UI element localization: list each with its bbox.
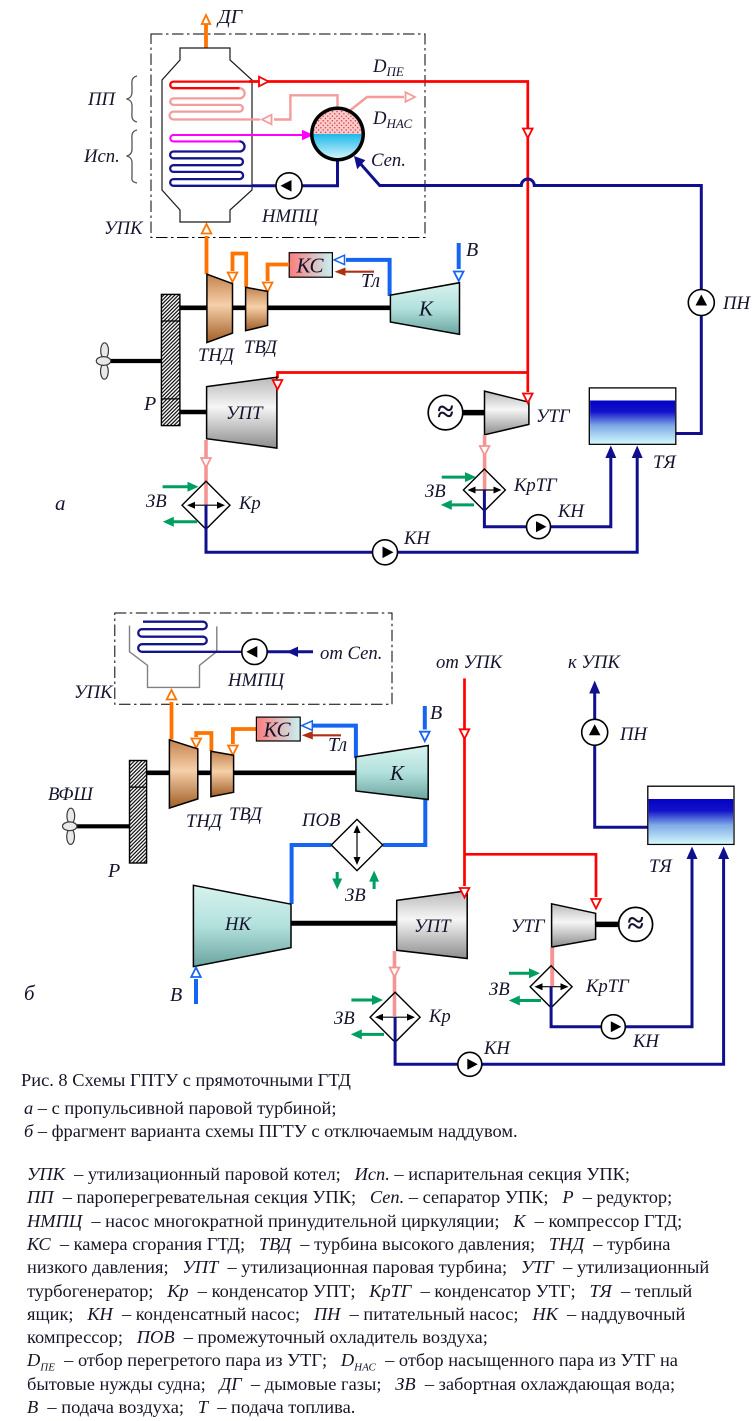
brace PP (superheater section) <box>127 76 138 122</box>
pump KN-b (upper) <box>601 1015 625 1039</box>
open arrow: red down mid-b <box>460 729 470 739</box>
condenser KrTG (diamond) <box>463 469 505 511</box>
svg-text:ТЯ: ТЯ <box>653 452 677 473</box>
propeller VFSh <box>62 808 76 844</box>
brace Isp (evaporator section) <box>127 130 138 183</box>
pump KN-b (lower) <box>458 1052 482 1076</box>
boiler UPK body outline <box>162 48 252 222</box>
wire: UPT exhaust to Kr (pink) <box>204 440 208 482</box>
svg-text:DНАС: DНАС <box>372 108 413 131</box>
turbine TND-b <box>169 740 197 808</box>
svg-text:ЗВ: ЗВ <box>334 1008 355 1029</box>
wire: cooling water out of POV (green, down) <box>336 872 339 879</box>
open arrow: D_NAS right <box>406 92 416 102</box>
wire: TVD-b to TND-b (orange) <box>196 733 211 751</box>
intercooler POV (diamond) <box>331 819 382 870</box>
svg-text:ДГ: ДГ <box>216 6 244 28</box>
open arrow: DG up <box>202 15 210 24</box>
shaft: gearbox to K (black) <box>180 305 391 310</box>
pump NMPC-b <box>242 639 267 664</box>
boiler UPK-b enclosure (dash-dot box) <box>115 613 392 704</box>
svg-text:Тл: Тл <box>361 270 380 292</box>
svg-text:ПН: ПН <box>722 293 751 314</box>
open arrow: red down mid <box>523 129 533 139</box>
wire: condensate Kr-b to KN-b to tank (navy) <box>395 858 723 1064</box>
double arrow inside Kr <box>190 504 222 506</box>
supercharger NK <box>193 885 291 966</box>
svg-text:УПК: УПК <box>74 682 114 703</box>
svg-text:ВФШ: ВФШ <box>48 784 94 805</box>
evaporator coil (magenta part) <box>170 135 309 141</box>
wire: UPT-b exhaust to Kr-b (pink) <box>393 951 397 1016</box>
svg-text:≈: ≈ <box>437 396 453 429</box>
open arrow: red into UTG <box>523 394 533 404</box>
turbine UPT-b <box>397 891 468 959</box>
pump KN (main condensate) <box>373 540 398 565</box>
double arrow inside KrTG-b <box>537 986 566 988</box>
solid arrow: magenta into separator <box>302 130 314 140</box>
separator Sep vessel <box>310 107 365 162</box>
wire: UTG-b exhaust to KrTG-b (pink) <box>550 948 554 987</box>
wire: pink inside condenser to centre <box>204 482 208 506</box>
wire: cooling water into POV (green, up) <box>373 881 376 889</box>
solid arrow: into tank-b bottom left <box>687 847 698 860</box>
turbine TVD <box>246 287 268 330</box>
shaft: gearbox-b to K-b <box>147 770 356 775</box>
svg-text:Сеп.: Сеп. <box>371 150 406 171</box>
svg-text:УПТ: УПТ <box>414 916 452 937</box>
open arrow: salmon into coil <box>262 115 272 125</box>
gearbox R-b (hatched) <box>130 761 147 864</box>
evaporator coil (navy part) <box>170 141 252 185</box>
svg-text:Исп.: Исп. <box>83 146 120 167</box>
wire: condensate Kr to KN to tank (navy) <box>206 457 637 552</box>
compressor K <box>390 283 459 335</box>
svg-text:В: В <box>430 702 442 724</box>
svg-text:УТГ: УТГ <box>511 916 546 937</box>
combustion chamber KS-b <box>256 717 300 741</box>
svg-text:Р: Р <box>143 393 156 415</box>
wire: cooling water in (green) Kr-b <box>351 999 373 1002</box>
solid arrow: into tank bottom left <box>605 446 616 459</box>
wire: K-b intake from POV (blue) <box>292 799 426 904</box>
solid arrow: from Sep into pump line <box>287 647 299 657</box>
open arrow: D_PE right <box>259 77 269 87</box>
svg-text:ТВД: ТВД <box>229 804 263 825</box>
turbine TVD-b <box>211 751 234 797</box>
turbine UTG <box>485 391 529 435</box>
svg-text:КН: КН <box>632 1031 660 1052</box>
svg-text:ТЯ: ТЯ <box>649 856 673 877</box>
open arrow: red into UPT-b <box>460 888 470 898</box>
solid arrow: into tank-b bottom right <box>718 847 729 860</box>
pump KN2 <box>527 515 551 539</box>
wire: UTG exhaust to KrTG (pink) <box>483 435 487 490</box>
wire: ot UPK steam supply (red) <box>465 678 597 897</box>
wire: cooling water out (green) KrTG <box>450 503 474 506</box>
svg-text:б: б <box>24 981 36 1005</box>
wire: saturated steam separator to PP coil (salmon) <box>274 95 338 119</box>
wire: red down to UTG inlet <box>526 371 529 392</box>
wire: red branch to UPT inlet <box>278 373 528 379</box>
svg-text:УПТ: УПТ <box>226 403 264 424</box>
svg-text:К: К <box>418 297 434 321</box>
combustion chamber KS feed: wire blue from compressor K <box>346 260 390 296</box>
compressor K-b <box>356 746 428 800</box>
open arrow: gas into TVD-b <box>228 746 238 756</box>
wire: condensate KrTG-b to KN to tank (navy) <box>551 858 692 1027</box>
wire: cooling water in (green) Kr <box>163 485 189 488</box>
condenser KrTG-b (diamond) <box>530 966 572 1008</box>
svg-text:Кр: Кр <box>238 493 261 514</box>
open arrow: gas into TND <box>228 273 238 283</box>
open arrow: B up into NK <box>191 968 201 978</box>
solid arrow: fuel into KS <box>335 268 346 276</box>
wire: cooling water in (green) KrTG <box>442 476 466 479</box>
boiler UPK enclosure (dash-dot box) <box>151 34 425 238</box>
pump PN (feed pump) <box>688 290 714 316</box>
wire: air B into compressor K <box>457 243 461 269</box>
shaft: generator to UTG <box>462 410 485 416</box>
svg-text:ЗВ: ЗВ <box>425 481 446 502</box>
wire: flue gas DG out of boiler top (orange) <box>204 24 208 48</box>
wire: condensate KrTG to KN2 to tank (navy) <box>484 457 610 527</box>
solid arrow: into tank bottom right <box>632 446 643 459</box>
generator of UTG (a) <box>428 395 463 430</box>
open arrow: gas into TVD <box>263 283 273 293</box>
svg-text:УПК: УПК <box>104 218 144 239</box>
wire: TVD to TND (orange) <box>233 254 247 288</box>
tank TYa-b (warm box) <box>648 786 734 844</box>
tank TYa (warm box) <box>589 388 676 444</box>
svg-text:НК: НК <box>224 914 252 935</box>
wire: fuel Tl-b (dark red) <box>312 734 341 736</box>
condenser Kr (diamond) <box>182 481 230 529</box>
wire: air B into K-b (blue) <box>423 706 427 730</box>
double arrow inside Kr-b <box>378 1016 412 1018</box>
wire: cooling water out (green) KrTG-b <box>518 999 541 1002</box>
wire: cooling water out (green) Kr <box>172 520 197 523</box>
superheater coil PP (salmon part) <box>170 88 260 119</box>
solid arrow: k UPK up <box>589 681 600 694</box>
svg-text:В: В <box>466 239 478 261</box>
turbine UPT <box>207 377 277 448</box>
combustion chamber KS <box>289 253 332 278</box>
svg-text:от УПК: от УПК <box>436 652 504 673</box>
generator of UTG-b <box>619 907 653 941</box>
solid arrow: fuel into KS-b <box>302 731 313 739</box>
shaft: propeller to gearbox <box>108 359 161 363</box>
open arrow: blue into KS-b <box>302 721 313 730</box>
shaft: propeller-b to gearbox-b <box>76 824 130 828</box>
wire: feedwater into separator (navy diagonal) <box>359 162 702 434</box>
double arrow inside POV (vertical) <box>356 828 358 862</box>
open arrow: pink down <box>201 458 211 468</box>
propeller (fixed pitch) <box>96 343 110 379</box>
open arrow: B-b down into K-b <box>420 732 430 742</box>
wire: feed pump PN-b line (navy) <box>595 693 648 827</box>
open arrow: B down into K <box>454 272 464 282</box>
wire: D_PE superheated steam main (red) <box>249 82 528 372</box>
svg-text:к УПК: к УПК <box>568 652 621 673</box>
wire: TND-b exhaust up into boiler (orange) <box>170 702 174 740</box>
wire: D_NAS take-off (salmon) <box>348 97 404 112</box>
open arrow: gas into TND-b <box>191 739 201 749</box>
wire: KS to TVD (orange) <box>268 265 290 282</box>
wire: compressor K-b to KS-b (blue) <box>313 726 356 758</box>
gearbox R (hatched) <box>161 294 180 425</box>
svg-text:Р: Р <box>107 860 120 882</box>
shaft: gearbox to UPT <box>180 410 207 415</box>
svg-text:от Сеп.: от Сеп. <box>320 643 382 664</box>
shaft: NK to UPT-b <box>291 921 397 926</box>
svg-text:ПОВ: ПОВ <box>301 810 340 831</box>
open arrow: gas into boiler-b <box>167 690 177 700</box>
wire: cooling water out (green) Kr-b <box>360 1033 384 1036</box>
svg-text:К: К <box>389 761 405 785</box>
svg-text:ЗВ: ЗВ <box>146 491 167 512</box>
svg-text:а: а <box>55 491 66 515</box>
wire: fuel Tl into KS (dark red) <box>345 271 374 273</box>
caption and legend text <box>0 0 756 1</box>
turbine UTG-b <box>552 904 596 947</box>
svg-text:ПН: ПН <box>619 724 648 745</box>
turbine TND <box>207 274 233 342</box>
solid arrow: feed into separator <box>354 156 365 169</box>
wire: TND exhaust up into boiler bottom (orange) <box>205 236 209 274</box>
double arrow inside KrTG <box>470 489 499 491</box>
wire: separator bottom to NMPC pump to boiler (navy) <box>252 161 338 187</box>
svg-text:DПЕ: DПЕ <box>372 56 404 79</box>
shaft: UTG-b to generator <box>596 922 620 928</box>
svg-text:КН: КН <box>557 501 585 522</box>
boiler UPK-b body outline <box>130 626 217 688</box>
wire: air B into NK (blue) <box>194 979 198 1004</box>
svg-text:КС: КС <box>263 718 292 742</box>
open arrow: pink into KrTG <box>480 446 490 456</box>
svg-text:КН: КН <box>403 528 431 549</box>
svg-text:Кр: Кр <box>428 1006 451 1027</box>
evaporator coil b (navy serpentine) <box>138 622 242 652</box>
wire: cooling water in (green) KrTG-b <box>509 972 530 975</box>
svg-text:В: В <box>170 984 182 1006</box>
svg-text:ЗВ: ЗВ <box>345 885 366 906</box>
wire: coil to NMPC-b (navy) <box>267 650 313 653</box>
svg-text:ЗВ: ЗВ <box>489 979 510 1000</box>
svg-text:КН: КН <box>483 1038 511 1059</box>
open arrow: blue into KS <box>334 255 345 264</box>
svg-text:ТНД: ТНД <box>186 811 223 832</box>
svg-text:Тл: Тл <box>328 734 347 756</box>
open arrow: pink down b <box>390 968 400 978</box>
svg-text:КрТГ: КрТГ <box>513 475 558 496</box>
wire: KS-b to TVD-b (orange) <box>233 729 257 744</box>
svg-text:КС: КС <box>296 254 325 278</box>
condenser Kr-b (diamond) <box>370 992 420 1042</box>
svg-text:ПП: ПП <box>87 89 116 110</box>
pump NMPC (circle with left triangle) <box>276 173 302 199</box>
superheater coil PP (red part) <box>170 82 250 89</box>
svg-text:КрТГ: КрТГ <box>585 976 630 997</box>
pump PN-b <box>582 719 608 745</box>
svg-text:НМПЦ: НМПЦ <box>261 206 320 227</box>
svg-text:ТВД: ТВД <box>244 337 278 358</box>
open arrow: red into UPT <box>273 380 283 390</box>
open arrow: red into UTG-b <box>591 899 601 909</box>
svg-text:НМПЦ: НМПЦ <box>227 670 286 691</box>
svg-text:≈: ≈ <box>627 907 643 940</box>
svg-text:УТГ: УТГ <box>536 406 571 427</box>
svg-text:ТНД: ТНД <box>198 345 235 366</box>
open arrow: gas into boiler bottom <box>202 224 212 234</box>
